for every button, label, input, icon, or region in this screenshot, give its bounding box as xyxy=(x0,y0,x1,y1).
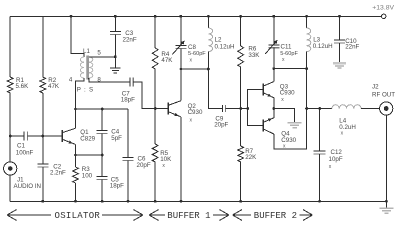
label +13.8V xyxy=(372,5,394,12)
wire C6 bottom xyxy=(127,161,129,202)
pin 8 xyxy=(97,76,101,83)
label R5 xyxy=(160,150,172,169)
wire collector bus xyxy=(76,108,129,110)
resistor R4 xyxy=(152,48,158,69)
node L3 bus xyxy=(305,67,308,70)
node L2 rail xyxy=(207,15,210,18)
transistor Q4 xyxy=(263,118,274,134)
wire R6 bottom xyxy=(240,67,242,109)
wire emitter bus xyxy=(76,154,103,156)
label P:S xyxy=(77,86,94,93)
wire C8 top xyxy=(180,16,182,45)
wire Q2 emitter to ground rail xyxy=(180,117,182,201)
node C8 rail xyxy=(179,15,182,18)
transistor Q2 xyxy=(168,101,181,117)
wire collector bus (buffer2) xyxy=(274,68,307,70)
svg-text:C930: C930 xyxy=(188,109,203,116)
label R2 xyxy=(48,77,60,90)
wire R2 bottom xyxy=(42,93,44,136)
svg-text:20pF: 20pF xyxy=(214,121,228,128)
svg-text:C8: C8 xyxy=(188,44,196,51)
resistor R5 xyxy=(152,144,158,162)
wire Q1 emitter down xyxy=(75,144,77,155)
label Q2 xyxy=(188,103,203,124)
node J2 ground xyxy=(385,200,388,203)
wire C5 top xyxy=(101,155,103,177)
label R1 xyxy=(16,77,30,90)
node R4/R5 tap xyxy=(154,107,157,110)
svg-text:5.6K: 5.6K xyxy=(16,83,30,90)
wire C12 column xyxy=(319,109,321,152)
resistor R1 xyxy=(7,77,13,93)
svg-text:22nF: 22nF xyxy=(345,43,359,50)
wire C5 bottom xyxy=(101,180,103,202)
svg-text:18pF: 18pF xyxy=(110,183,124,190)
wire to L4 xyxy=(320,108,332,110)
svg-text:2.2nF: 2.2nF xyxy=(50,170,66,177)
node R6 rail xyxy=(239,15,242,18)
wire output node to C12 xyxy=(307,108,320,110)
svg-text:C829: C829 xyxy=(80,135,95,142)
wire emitter to ground xyxy=(274,109,295,122)
svg-text:C930: C930 xyxy=(280,90,295,97)
svg-text:OSILATOR: OSILATOR xyxy=(55,211,101,221)
node emitter junction xyxy=(272,107,275,110)
resistor R3 xyxy=(73,167,79,183)
wire C10 bottom xyxy=(339,43,341,62)
wire C8 bottom xyxy=(180,48,182,69)
section label BUFFER 1 xyxy=(167,211,210,221)
node Q3 collector bus xyxy=(272,67,275,70)
node tank bus right xyxy=(207,68,210,71)
wire left column top xyxy=(9,16,11,77)
wire C2 to ground rail xyxy=(42,167,44,201)
node C6 ground xyxy=(127,200,130,203)
svg-text:L1: L1 xyxy=(83,48,90,55)
wire Q4 collector down xyxy=(274,109,307,150)
capacitor C7 xyxy=(130,78,133,87)
label L2 xyxy=(215,36,235,50)
capacitor C3 xyxy=(110,32,121,35)
label Q3 xyxy=(280,84,295,103)
svg-text:5: 5 xyxy=(97,49,101,56)
svg-text:10pF: 10pF xyxy=(329,156,343,163)
label R7 xyxy=(245,148,257,161)
node C12 ground xyxy=(318,200,321,203)
svg-text:0.12uH: 0.12uH xyxy=(215,44,235,51)
svg-text:47K: 47K xyxy=(161,57,173,64)
svg-text:0.12uH: 0.12uH xyxy=(313,43,333,50)
resistor R2 xyxy=(40,77,46,93)
wire R5 top xyxy=(154,109,156,145)
node input junction xyxy=(9,135,12,138)
svg-text:+13.8V: +13.8V xyxy=(372,5,394,12)
section label OSILATOR xyxy=(55,211,101,221)
svg-text:33K: 33K xyxy=(248,52,260,59)
wire J2 shell to ground rail xyxy=(385,115,387,201)
wire C11 bottom xyxy=(273,48,275,69)
svg-text:AUDIO IN: AUDIO IN xyxy=(14,183,42,190)
trimmer capacitor C11 xyxy=(265,40,279,54)
wire input node to C1 xyxy=(10,135,24,137)
node L1 feed xyxy=(70,15,73,18)
node R2/C2 junction xyxy=(41,135,44,138)
label C10 xyxy=(345,38,359,51)
pin 4 xyxy=(69,77,73,84)
capacitor C6 xyxy=(123,158,134,161)
wire base bracket xyxy=(248,89,263,125)
pin 5 xyxy=(97,49,101,56)
wire C12 bottom xyxy=(319,154,321,201)
label L1 xyxy=(83,48,90,55)
wire R3 bottom xyxy=(75,183,77,201)
wire Q3 emitter down xyxy=(273,98,275,109)
svg-text:RF OUT: RF OUT xyxy=(372,91,395,98)
label C4 xyxy=(111,129,122,142)
wire tank bus xyxy=(181,68,209,70)
capacitor C12 xyxy=(314,151,326,154)
label C6 xyxy=(137,156,151,169)
label C12 xyxy=(329,149,343,170)
wire L1 pin8 to C7 xyxy=(89,78,130,82)
node C3 ground junction xyxy=(114,55,117,58)
node C2 ground xyxy=(41,200,44,203)
wire L2 top xyxy=(207,16,209,28)
label Q4 xyxy=(281,131,296,150)
svg-text:47K: 47K xyxy=(48,83,60,90)
label L4 xyxy=(339,118,356,137)
inductor L2 xyxy=(208,28,212,52)
node base tee xyxy=(246,107,249,110)
label J2 xyxy=(372,83,395,98)
node C11 rail xyxy=(272,15,275,18)
wire R4 bottom xyxy=(154,69,156,109)
connector J2 xyxy=(380,102,393,115)
label C5 xyxy=(110,176,124,189)
inductor L4 xyxy=(332,105,361,109)
ground (rail right end) xyxy=(380,201,394,213)
wire J1 shell to ground rail xyxy=(9,175,11,201)
wire L2 bottom xyxy=(207,52,209,69)
transformer L1 core xyxy=(86,56,88,80)
label C11 xyxy=(280,44,298,63)
node output left xyxy=(305,107,308,110)
wire L3 down to output node xyxy=(306,69,308,109)
inductor L3 xyxy=(307,28,311,52)
node Q1 emitter xyxy=(74,154,77,157)
svg-text:BUFFER 1: BUFFER 1 xyxy=(167,211,210,221)
wire L3 bottom xyxy=(306,52,308,69)
transistor Q3 xyxy=(263,82,274,98)
wire C7 to Q2 base xyxy=(133,82,168,109)
svg-text:J2: J2 xyxy=(372,83,379,90)
section arrow BUFFER 2 xyxy=(233,210,313,221)
svg-text:18pF: 18pF xyxy=(121,97,135,104)
wire L1 pin4 to Q1 collector xyxy=(76,78,85,109)
label J1 xyxy=(14,176,42,189)
wire L1 pin5 to ground node xyxy=(89,56,115,58)
wire C3 bottom xyxy=(114,35,116,57)
capacitor C2 xyxy=(37,164,48,167)
node R5 ground xyxy=(154,200,157,203)
node C3 rail xyxy=(114,15,117,18)
section arrow OSILATOR xyxy=(7,210,143,221)
svg-text:100nF: 100nF xyxy=(16,149,34,156)
transistor Q1 xyxy=(62,128,76,144)
wire R7 bottom xyxy=(240,162,242,201)
svg-text:22K: 22K xyxy=(245,154,257,161)
wire C9 to bases xyxy=(226,108,248,110)
svg-text:C12: C12 xyxy=(331,149,343,156)
wire rail to L1 primary xyxy=(71,16,84,57)
label C9 xyxy=(214,115,228,128)
node collector bus left xyxy=(74,108,77,111)
trimmer capacitor C8 xyxy=(172,41,186,55)
label R3 xyxy=(82,166,93,179)
label C3 xyxy=(123,30,137,43)
section label BUFFER 2 xyxy=(254,211,297,221)
wire C4 top xyxy=(101,109,103,131)
resistor R6 xyxy=(238,46,244,67)
wire R7 top xyxy=(240,109,242,147)
svg-text:BUFFER 2: BUFFER 2 xyxy=(254,211,297,221)
node Q2 collector bus left xyxy=(180,68,183,71)
connector J1 xyxy=(4,162,17,175)
wire C11 top xyxy=(273,16,275,45)
svg-text:L2: L2 xyxy=(215,36,222,43)
ground (C10, gray stack) xyxy=(333,62,346,69)
section arrow BUFFER 1 xyxy=(149,210,229,221)
wire C10 top xyxy=(339,16,341,40)
label C7 xyxy=(121,91,135,104)
ground (buffer, gray) xyxy=(288,123,302,128)
wire C6 top xyxy=(127,109,129,158)
wire C3 top xyxy=(114,16,116,31)
wire C1 to R2 node xyxy=(27,135,42,137)
wire C4 bottom xyxy=(101,134,103,156)
label C1 xyxy=(16,143,34,157)
svg-text:100: 100 xyxy=(82,172,93,179)
label R6 xyxy=(248,46,260,59)
capacitor C1 xyxy=(24,132,27,141)
capacitor C9 xyxy=(222,105,225,112)
wire R6 top xyxy=(240,16,242,46)
node C12 top xyxy=(318,107,321,110)
power rail +13.8V (top) xyxy=(10,15,381,17)
node C4 top xyxy=(101,108,104,111)
svg-text:4: 4 xyxy=(69,77,73,84)
capacitor C5 xyxy=(97,177,108,180)
label Q1 xyxy=(80,129,95,142)
node R6/R7 tap xyxy=(239,107,242,110)
svg-text:P : S: P : S xyxy=(77,86,94,93)
label R4 xyxy=(161,51,173,64)
wire L2 node down to C9 xyxy=(208,69,222,109)
wire Q4 emitter up xyxy=(273,109,275,118)
wire R5 bottom xyxy=(154,162,156,201)
wire Q2 collector up xyxy=(180,69,182,101)
transformer L1 secondary winding xyxy=(89,57,93,78)
transformer L1 primary winding xyxy=(80,57,84,78)
terminal +13.8V xyxy=(382,14,386,18)
svg-text:5-60pF: 5-60pF xyxy=(188,51,206,57)
label C2 xyxy=(50,164,66,177)
node R3 ground xyxy=(74,200,77,203)
wire L4 to J2 xyxy=(361,108,380,110)
svg-text:5pF: 5pF xyxy=(111,135,122,142)
node C5 ground xyxy=(101,200,104,203)
wire node to Q1 base xyxy=(43,135,62,137)
wire R2 top xyxy=(42,16,44,77)
label C8 xyxy=(188,44,206,64)
wire Q1 collector up xyxy=(75,109,77,128)
node Q2 emitter ground xyxy=(180,200,183,203)
node C10 rail xyxy=(338,15,341,18)
node R7 ground xyxy=(239,200,242,203)
node L3 rail xyxy=(305,15,308,18)
svg-text:C11: C11 xyxy=(281,44,292,51)
wire R4 top xyxy=(154,16,156,48)
wire Q3 collector up xyxy=(273,69,275,82)
capacitor C4 xyxy=(97,131,108,134)
capacitor C10 xyxy=(334,40,345,43)
ground (oscillator) xyxy=(110,57,121,73)
svg-text:20pF: 20pF xyxy=(137,162,151,169)
wire L3 top xyxy=(306,16,308,28)
wire node to C2 xyxy=(42,136,44,164)
resistor R7 xyxy=(238,146,244,162)
node R4 rail xyxy=(154,15,157,18)
node emitter bus right xyxy=(101,154,104,157)
wire R3 top xyxy=(75,155,77,167)
ground rail (bottom) xyxy=(10,200,386,202)
label L3 xyxy=(313,36,333,50)
svg-text:22nF: 22nF xyxy=(123,36,137,43)
wire R1 to input node xyxy=(9,93,11,162)
